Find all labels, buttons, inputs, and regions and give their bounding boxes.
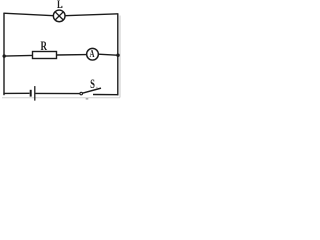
wire junction to resistor — [4, 54, 33, 57]
wire battery to switch — [35, 92, 80, 94]
lamp L — [53, 10, 65, 22]
node right junction — [116, 54, 119, 57]
ammeter A — [87, 47, 99, 60]
wire bottom left — [3, 92, 29, 94]
wire left vertical — [3, 13, 5, 95]
svg-text:S: S — [90, 79, 95, 92]
wire bottom right — [93, 94, 118, 96]
resistor R — [33, 52, 57, 59]
wire right vertical — [117, 14, 119, 96]
battery cell — [31, 86, 35, 101]
switch S — [80, 88, 101, 95]
wire top left — [3, 13, 53, 16]
wire top right — [65, 14, 118, 16]
svg-text:L: L — [57, 0, 63, 11]
node left junction — [2, 54, 5, 57]
wire ammeter to junction — [98, 54, 117, 55]
svg-text:R: R — [41, 40, 48, 54]
wire resistor to ammeter — [57, 54, 87, 56]
svg-text:A: A — [90, 47, 95, 59]
